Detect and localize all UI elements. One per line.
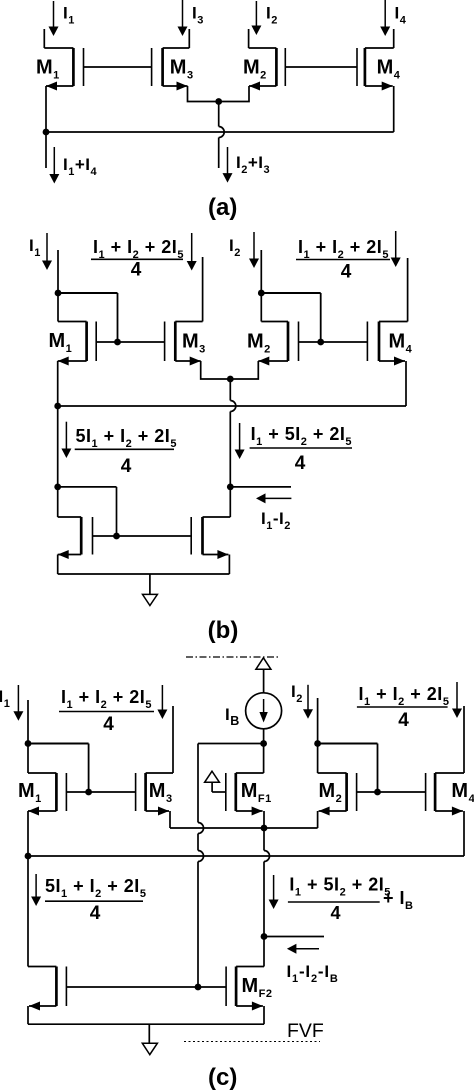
node: FVF feedback to gates junction (c)	[195, 984, 202, 991]
current arrow I2+I3 (a)	[223, 147, 271, 183]
node: M2 gate junction (c)	[374, 789, 381, 796]
node: junction of M1 source with lower rail (c)	[25, 853, 32, 860]
wire: source of M3 to center node (b)	[175, 357, 230, 380]
transistor M3 (c)	[136, 773, 173, 811]
wire: ground rail (c)	[28, 1023, 264, 1025]
current arrow I1 (a)	[49, 1, 75, 36]
wire: M3 drain lead (b)	[175, 257, 202, 322]
node: left mirror drain junction (b)	[54, 484, 61, 491]
power symbol at MF1 gate (c)	[205, 771, 220, 782]
wire: source of M1 down to bottom rail (a)	[46, 82, 73, 133]
wire: gate net M1-M3 (b)	[96, 341, 164, 343]
wire: M1 drain lead (b)	[58, 293, 87, 322]
caption (a)	[208, 194, 237, 221]
node: M3/M2 common source junction (b)	[227, 376, 234, 383]
wire: output branch to the right (c)	[264, 936, 324, 938]
transistor M1 (c)	[18, 773, 66, 811]
wire: gate net M2-M4 (c)	[357, 791, 426, 793]
wire: I1 input lead (c)	[27, 700, 29, 744]
ground symbol (c)	[142, 1024, 157, 1054]
wire: source of M4 down to bottom rail (a)	[365, 82, 394, 133]
svg-text:4: 4	[398, 710, 409, 731]
node: M3/M2 common source junction (a)	[215, 98, 222, 105]
fraction label (I1+I2+2I5)/4 left (c)	[59, 687, 154, 735]
wire: right mirror source to ground rail (b)	[203, 550, 230, 574]
svg-text:4: 4	[131, 260, 142, 281]
current arrow I1 (b)	[29, 233, 52, 270]
node: M2 gate junction (b)	[317, 339, 324, 346]
wire: MF1 drain lead (c)	[236, 744, 264, 774]
wire: M2 drain-to-gate feedback (c)	[318, 744, 378, 793]
wire: source of M2 to center node (a)	[219, 82, 277, 102]
wire: source of M2 to source rail (c)	[318, 807, 347, 829]
fraction label (I1+I2+2I5)/4 right (c)	[357, 684, 450, 731]
node: MF1 source junction on source rail (c)	[261, 825, 268, 832]
wire: I2 input lead of M2 (a)	[249, 29, 277, 48]
wire: MF1 gate lead (c)	[212, 782, 226, 792]
wire: middle rail (b)	[58, 405, 406, 407]
caption (b)	[208, 617, 239, 644]
svg-text:4: 4	[103, 714, 114, 735]
wire: MF2 source to ground rail (c)	[236, 1002, 264, 1025]
wire: ground rail (b)	[58, 573, 230, 575]
wire: right mirror drain lead (b)	[203, 487, 231, 517]
wire: MF1 source wire crossing lower rail with hop (c)	[264, 828, 270, 937]
current source IB (c)	[225, 693, 282, 729]
transistor mirror-left (c)	[56, 967, 66, 1007]
power rail VDD dash line (c)	[186, 656, 279, 658]
wire: gate net M2-M4 (b)	[299, 341, 368, 343]
wire: M2 drain lead (c)	[318, 744, 347, 774]
svg-text:4: 4	[121, 456, 132, 477]
ground symbol (b)	[143, 574, 158, 606]
current arrow (5I1+I2+2I5)/4 (c)	[31, 874, 41, 906]
svg-text:FVF: FVF	[287, 1020, 324, 1042]
transistor M3 (a)	[152, 48, 194, 86]
svg-text:4: 4	[295, 453, 306, 474]
wire: M2 drain-to-gate feedback (b)	[261, 293, 320, 342]
node: M1 gate junction (c)	[85, 789, 92, 796]
wire: source of M2 to center node (b)	[230, 357, 288, 380]
wire: mirror gate net (b)	[93, 535, 192, 537]
wire: M1 drain-to-gate feedback (b)	[58, 293, 118, 342]
fraction label (I1+I2+2I5)/4 right (b)	[296, 237, 390, 283]
node: M1 drain/gate tap (b)	[55, 290, 62, 297]
wire: output branch to the right (b)	[230, 486, 291, 488]
current arrow (I1+I2+2I5)/4 left (b)	[187, 233, 197, 271]
wire: gate net M1-M3 (a)	[84, 66, 152, 68]
current arrow I4 (a)	[380, 0, 407, 36]
wire: VDD to current source (c)	[263, 669, 265, 693]
transistor M1 (b)	[49, 322, 97, 362]
fraction label (5I1+I2+2I5)/4 (c)	[45, 876, 146, 924]
wire: I1 input lead of M1 (a)	[44, 29, 73, 48]
node: M2 drain/gate tap (c)	[314, 740, 321, 747]
node: M1 drain/gate tap (c)	[25, 740, 32, 747]
wire: FVF feedback from MF1 drain to MF2 gate with hops (c)	[198, 744, 264, 988]
fraction label (I1+5I2+2I5)/4 (b)	[250, 424, 352, 474]
current arrow (I1+5I2+2I5)/4+IB (c)	[269, 875, 279, 909]
node: junction of M1 source with bottom rail (a)	[43, 129, 50, 136]
current arrow I1-I2 (b)	[256, 493, 291, 532]
wire: source of M3 to source rail (c)	[146, 807, 170, 829]
wire: mirror source to ground rail (c)	[28, 1002, 56, 1025]
svg-text:(a): (a)	[208, 194, 237, 221]
current arrow (I1+I2+2I5)/4 right (b)	[391, 231, 401, 267]
wire: MF1 source to source rail (c)	[236, 807, 264, 829]
wire: M1 drain lead (c)	[28, 744, 56, 774]
wire: left mirror source to ground rail (b)	[58, 550, 81, 574]
wire: center wire crossing rail with hop (b)	[230, 379, 236, 487]
wire: MF2 drain lead (c)	[236, 937, 264, 967]
current arrow I2 (c)	[291, 682, 313, 719]
transistor mirror-right (b)	[191, 517, 202, 555]
node: IB / MF1 drain node (c)	[260, 740, 267, 747]
current arrow (I1+5I2+2I5)/4 (b)	[235, 423, 245, 459]
wire: mirror drain-to-gate feedback (b)	[58, 487, 117, 536]
caption (c)	[208, 1064, 237, 1091]
node: M1 gate junction (b)	[114, 339, 121, 346]
wire: gate net mirror-MF2 (c)	[66, 986, 226, 988]
fraction label (I1+5I2+2I5)/4+IB (c)	[288, 875, 414, 924]
transistor M2 (c)	[319, 773, 357, 811]
wire: I2 input lead (b)	[260, 250, 262, 293]
node: output node I1-I2 (b)	[227, 484, 234, 491]
wire: I2 input lead (c)	[317, 698, 319, 744]
wire: left output wire (b)	[57, 406, 59, 487]
transistor M2 (b)	[247, 322, 299, 362]
wire: I3 input lead of M3 (a)	[163, 29, 190, 48]
current arrow I2 (a)	[251, 1, 277, 35]
current arrow (I1+I2+2I5)/4 right (c)	[452, 682, 462, 718]
wire: M4 drain lead (b)	[379, 258, 408, 322]
wire: gate net M2-M4 (a)	[285, 66, 357, 68]
wire: source of M4 down to rail (b)	[379, 357, 406, 407]
wire: I1 input lead (b)	[57, 250, 59, 293]
transistor MF1 (c)	[226, 773, 272, 811]
transistor M3 (b)	[165, 322, 206, 362]
current arrow I2 (b)	[229, 232, 259, 268]
wire: source of M3 to center node (a)	[163, 82, 219, 102]
svg-text:4: 4	[341, 262, 352, 283]
wire: source of M4 down to lower rail (c)	[435, 807, 464, 857]
wire: source rail M3-MF1-M2 with hop (c)	[170, 827, 318, 829]
power symbol VDD triangle (c)	[256, 658, 271, 670]
wire: source of M1 down to rail (b)	[58, 357, 87, 407]
wire: current source to MF1 drain node (c)	[263, 729, 265, 744]
wire: M3 drain lead (c)	[146, 706, 173, 773]
node: mirror gate junction (b)	[113, 533, 120, 540]
transistor M1 (a)	[36, 48, 84, 86]
transistor MF2 (c)	[226, 967, 272, 1007]
current arrow I1+I4 (a)	[49, 147, 97, 184]
transistor M2 (a)	[243, 48, 285, 86]
fraction label (5I1+I2+2I5)/4 (b)	[75, 426, 177, 477]
current arrow (5I1+I2+2I5)/4 (b)	[61, 422, 71, 458]
transistor M4 (b)	[367, 322, 412, 362]
wire: left output stub below rail (a)	[45, 132, 47, 168]
wire: M4 drain lead (c)	[435, 706, 464, 773]
transistor M4 (c)	[426, 773, 474, 811]
wire: center output crossing rail with hop (a)	[219, 102, 225, 169]
current arrow (I1+I2+2I5)/4 left (c)	[157, 685, 167, 719]
wire: left mirror drain lead (b)	[58, 487, 81, 517]
node: junction of M1 source with middle rail (b)	[54, 403, 61, 410]
label FVF (c)	[287, 1020, 324, 1042]
transistor mirror-left (b)	[81, 517, 92, 555]
current arrow I1-I2-IB (c)	[287, 944, 339, 985]
wire: lower rail to mirror drain lead (c)	[28, 856, 56, 967]
svg-text:4: 4	[90, 903, 101, 924]
current arrow I3 (a)	[178, 0, 204, 36]
svg-text:4: 4	[330, 903, 340, 923]
wire: gate net M1-M3 (c)	[66, 791, 135, 793]
wire: M2 drain lead (b)	[261, 293, 288, 322]
wire: bottom rail I1+I4 (a)	[46, 131, 394, 133]
wire: I4 input lead of M4 (a)	[365, 29, 394, 48]
node: FVF output node (c)	[261, 933, 268, 940]
transistor M4 (a)	[357, 48, 401, 86]
fraction label (I1+I2+2I5)/4 left (b)	[91, 237, 184, 281]
wire: lower rail M1-M4 (c)	[28, 855, 464, 857]
wire: source of M1 down to lower rail (c)	[28, 807, 56, 857]
wire: M1 drain-to-gate feedback (c)	[28, 744, 89, 793]
svg-text:(b): (b)	[208, 617, 239, 644]
node: M2 drain/gate tap (b)	[258, 290, 265, 297]
current arrow I1 (c)	[0, 685, 23, 721]
FVF cell boundary dotted line (c)	[184, 1041, 320, 1043]
svg-text:(c): (c)	[208, 1064, 237, 1091]
